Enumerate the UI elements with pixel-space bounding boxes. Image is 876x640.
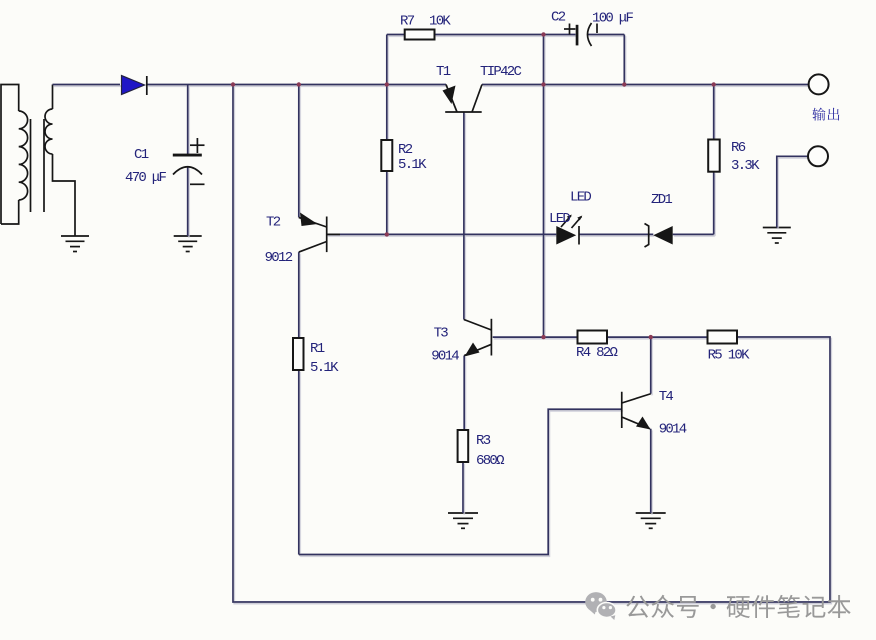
- svg-text:470 μF: 470 μF: [125, 170, 167, 186]
- svg-text:100 μF: 100 μF: [592, 11, 634, 27]
- svg-text:9014: 9014: [431, 349, 459, 365]
- svg-text:5.1K: 5.1K: [398, 157, 427, 173]
- svg-text:T3: T3: [434, 325, 449, 341]
- svg-text:T2: T2: [266, 215, 281, 231]
- svg-text:LED: LED: [549, 211, 570, 227]
- svg-text:LED: LED: [570, 190, 591, 206]
- svg-text:T1: T1: [436, 64, 451, 80]
- svg-text:3.3K: 3.3K: [731, 158, 760, 174]
- svg-text:R2: R2: [398, 142, 413, 158]
- svg-text:R1: R1: [310, 341, 325, 357]
- svg-text:R5 10K: R5 10K: [708, 348, 751, 364]
- svg-text:C2: C2: [551, 10, 566, 26]
- svg-text:C1: C1: [134, 147, 149, 163]
- svg-text:R7: R7: [400, 14, 415, 30]
- svg-text:R3: R3: [476, 433, 491, 449]
- svg-text:680Ω: 680Ω: [476, 453, 504, 469]
- svg-text:10K: 10K: [429, 14, 451, 30]
- svg-text:T4: T4: [659, 389, 674, 405]
- svg-text:R6: R6: [731, 140, 746, 156]
- svg-text:5.1K: 5.1K: [310, 360, 339, 376]
- svg-text:ZD1: ZD1: [651, 192, 672, 208]
- svg-text:9012: 9012: [265, 250, 293, 266]
- svg-text:TIP42C: TIP42C: [480, 64, 522, 80]
- svg-text:R4 82Ω: R4 82Ω: [576, 345, 618, 361]
- svg-text:9014: 9014: [659, 422, 687, 438]
